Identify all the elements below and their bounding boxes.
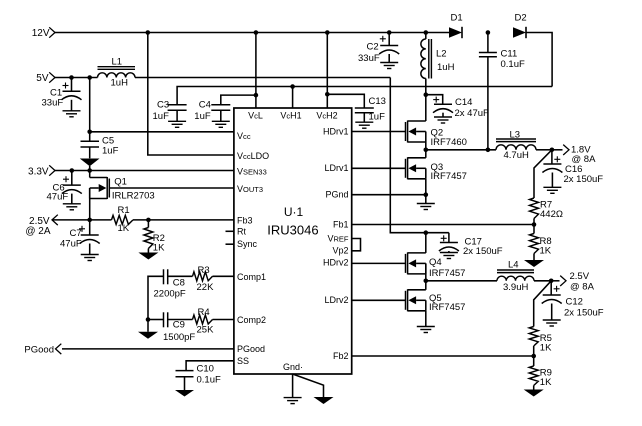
pin label HDrv1 <box>323 126 349 136</box>
svg-text:1uF: 1uF <box>102 146 119 157</box>
svg-text:PGood: PGood <box>24 345 54 356</box>
wire 2.5V rail to R1 <box>52 219 112 221</box>
wire 12V rail <box>55 32 449 34</box>
junction switch1/C11 <box>486 148 491 153</box>
wire Gnd right branch <box>293 374 324 397</box>
capacitor C10 <box>176 363 221 390</box>
pin label VcL <box>248 110 263 120</box>
svg-text:Fb3: Fb3 <box>237 215 253 225</box>
pin label PGood <box>237 344 265 354</box>
svg-text:Gnd·: Gnd· <box>283 362 303 372</box>
svg-text:47uF: 47uF <box>60 238 82 249</box>
svg-text:C2: C2 <box>367 42 379 53</box>
wire PGood <box>24 344 233 356</box>
inductor L2 <box>421 33 455 87</box>
svg-text:VccLDO: VccLDO <box>237 151 269 161</box>
svg-text:1uF: 1uF <box>369 112 386 123</box>
wire SS to C10 <box>186 361 234 371</box>
resistor R3 22K <box>193 265 215 293</box>
svg-text:2x 150uF: 2x 150uF <box>463 246 503 257</box>
svg-text:L3: L3 <box>510 129 521 140</box>
svg-text:Sync: Sync <box>237 239 258 249</box>
svg-text:Rt: Rt <box>237 226 246 236</box>
wire 5V feed to C17 <box>390 78 449 233</box>
svg-text:U·1: U·1 <box>284 205 304 219</box>
ground C12 <box>543 320 561 326</box>
svg-text:LDrv1: LDrv1 <box>324 163 348 173</box>
junction 1.8V output node <box>550 148 555 153</box>
IC label IRU3046 <box>267 223 318 238</box>
svg-text:442Ω: 442Ω <box>540 209 563 220</box>
svg-text:PGood: PGood <box>237 344 265 354</box>
svg-text:HDrv2: HDrv2 <box>323 258 349 268</box>
svg-text:1uH: 1uH <box>111 78 129 89</box>
wire Q2 source to switch node <box>425 142 427 150</box>
svg-text:C14: C14 <box>455 97 472 108</box>
wire L4 to 2.5V node <box>534 280 551 282</box>
svg-text:1uF: 1uF <box>194 111 211 122</box>
svg-text:Vp2: Vp2 <box>332 246 348 256</box>
svg-text:2200pF: 2200pF <box>154 288 186 299</box>
junction R1/R2 <box>146 218 151 223</box>
capacitor C3 <box>153 100 187 123</box>
inductor L3 <box>496 129 536 161</box>
svg-text:C13: C13 <box>369 96 386 107</box>
junction 3.3V/C6 <box>70 168 75 173</box>
resistor R9 <box>529 356 552 390</box>
svg-text:5V: 5V <box>36 73 49 84</box>
ground R2 arrow <box>138 253 158 260</box>
wire LDrv1 to Q3 gate <box>352 167 406 169</box>
pin label Vp2 <box>332 246 348 256</box>
node 3.3V input label <box>28 165 55 177</box>
ground Gnd classic <box>284 398 302 404</box>
svg-text:D2: D2 <box>515 13 527 24</box>
wire 3.3V rail <box>55 170 234 172</box>
junction 5V/C5 <box>87 75 92 80</box>
wire HDrv1 to Q2 gate <box>352 131 406 133</box>
ground C14 <box>434 117 452 123</box>
svg-text:C11: C11 <box>501 49 518 60</box>
wire D2 cathode loop <box>526 33 552 87</box>
pin label VOUT3 <box>237 184 263 194</box>
capacitor C2 <box>358 33 399 65</box>
junction switch1/Q2Q3 <box>424 148 429 153</box>
pin label Fb3 <box>237 215 253 225</box>
svg-text:SS: SS <box>237 356 249 366</box>
svg-text:VcH2: VcH2 <box>316 110 337 120</box>
capacitor C6 <box>47 171 82 204</box>
node 2.5V@2A output label <box>25 215 57 237</box>
svg-text:IRU3046: IRU3046 <box>267 223 318 238</box>
svg-text:R4: R4 <box>198 307 210 318</box>
svg-text:HDrv1: HDrv1 <box>323 126 349 136</box>
svg-text:12V: 12V <box>32 28 50 39</box>
junction 3.3V/C5/Q1 <box>87 168 92 173</box>
transistor Q3 IRF7457 <box>406 150 467 182</box>
svg-text:IRF7460: IRF7460 <box>431 137 467 148</box>
pin label Gnd <box>283 362 303 372</box>
wire C9 to comp bus <box>148 319 164 321</box>
pin label LDrv1 <box>324 163 348 173</box>
wire R3 to C8 <box>168 275 193 277</box>
wire Comp2 <box>213 319 234 321</box>
wire R4 to C9 <box>168 319 193 321</box>
svg-text:33uF: 33uF <box>42 98 64 109</box>
ground C4 <box>212 121 230 127</box>
junction switch2/Q4Q5 <box>424 279 429 284</box>
svg-text:Q1: Q1 <box>114 176 127 187</box>
wire Vcc <box>90 131 234 133</box>
pin label Vcc <box>237 131 251 141</box>
ground C7 <box>81 255 99 261</box>
svg-text:25K: 25K <box>197 324 215 335</box>
node 12V input label <box>32 27 55 39</box>
capacitor C17 <box>439 233 503 257</box>
transistor Q1 IRLR2703 <box>90 171 155 220</box>
capacitor C13 <box>327 94 386 122</box>
wire switch node 1 <box>426 149 496 151</box>
pin label Fb2 <box>333 351 349 361</box>
svg-text:0.1uF: 0.1uF <box>501 59 525 70</box>
svg-text:2x 47uF: 2x 47uF <box>455 108 490 119</box>
wire VcH1 <box>292 87 294 109</box>
junction 12V/Vcc <box>146 30 151 35</box>
junction comp bus <box>146 317 151 322</box>
ground C1 <box>63 111 81 117</box>
junction Q2 drain/C14 <box>424 92 429 97</box>
wire Q5 source to ground <box>425 311 427 327</box>
resistor R4 25K <box>193 307 215 335</box>
svg-text:Fb2: Fb2 <box>333 351 349 361</box>
capacitor C16 <box>542 150 603 188</box>
capacitor C14 <box>426 95 489 119</box>
resistor R1 <box>112 205 134 234</box>
wire R1 to Fb3 <box>133 219 234 221</box>
wire 2.5V node to R5 <box>534 281 552 327</box>
pin label VcH1 <box>280 110 301 120</box>
pin stub Sync <box>226 239 258 249</box>
capacitor C5 <box>80 78 119 171</box>
pin stub Rt <box>226 226 247 236</box>
wire HDrv2 to Q4 gate <box>352 262 406 264</box>
junction 12V/C2 <box>387 30 392 35</box>
svg-text:C8: C8 <box>173 277 185 288</box>
svg-text:L4: L4 <box>508 260 519 271</box>
pin label VccLDO <box>237 151 269 161</box>
svg-text:22K: 22K <box>197 282 215 293</box>
junction 2.5V/Q1/C7 <box>87 218 92 223</box>
diode D1 <box>449 13 463 39</box>
svg-text:2x 150uF: 2x 150uF <box>564 308 604 319</box>
capacitor C8 2200pF <box>154 269 186 299</box>
svg-text:Fb1: Fb1 <box>333 219 349 229</box>
pin label VSEN33 <box>237 166 267 176</box>
svg-text:@ 2A: @ 2A <box>25 226 50 237</box>
svg-text:Comp2: Comp2 <box>237 315 266 325</box>
svg-text:1uF: 1uF <box>153 111 170 122</box>
pin label Fb1 <box>333 219 349 229</box>
ground R9 arrow <box>524 390 544 397</box>
junction 12V/L2 <box>424 30 429 35</box>
inductor L1 <box>98 57 136 89</box>
wire VREF-Vp2 jumper <box>352 239 361 251</box>
svg-text:VcL: VcL <box>248 110 263 120</box>
junction Q4 drain feed <box>424 230 429 235</box>
resistor R5 <box>529 327 552 357</box>
node 5V input label <box>36 72 55 84</box>
svg-text:VSEN33: VSEN33 <box>237 166 267 176</box>
junction 2.5V output node <box>549 279 554 284</box>
ground PGnd <box>417 195 435 210</box>
resistor R8 <box>530 225 552 261</box>
capacitor C9 1500pF <box>163 312 195 343</box>
svg-text:Vcc: Vcc <box>237 131 251 141</box>
svg-text:4.7uH: 4.7uH <box>504 150 529 161</box>
svg-text:IRF7457: IRF7457 <box>431 171 467 182</box>
ground C3 <box>168 121 186 127</box>
wire VOUT3 to Q1 gate <box>109 187 234 189</box>
ground C6 <box>63 204 81 210</box>
ground comp arrow <box>138 332 158 339</box>
transistor Q5 IRF7457 <box>406 281 466 313</box>
wire 1.8V node to R7 <box>534 150 552 198</box>
junction R7/R8/Fb1 <box>532 222 537 227</box>
wire comp bus to ground <box>147 320 149 332</box>
svg-text:Q4: Q4 <box>429 257 442 268</box>
svg-text:1K: 1K <box>540 343 552 354</box>
wire 5V rail after L1 <box>135 77 390 79</box>
inductor L4 <box>497 260 534 294</box>
junction 12V/VcH2 <box>325 30 330 35</box>
svg-text:R3: R3 <box>198 265 210 276</box>
wire Q4 source to switch node 2 <box>425 263 427 280</box>
svg-text:L2: L2 <box>436 49 447 60</box>
svg-text:IRLR2703: IRLR2703 <box>112 190 155 201</box>
svg-text:1K: 1K <box>540 246 552 257</box>
ground C13 <box>355 122 373 128</box>
svg-text:1K: 1K <box>153 243 165 254</box>
svg-text:1K: 1K <box>540 377 552 388</box>
pin label Comp1 <box>237 272 266 282</box>
svg-text:LDrv2: LDrv2 <box>324 295 348 305</box>
IC U1 IRU3046 box <box>234 108 352 374</box>
junction VcH2/C13 <box>325 92 330 97</box>
capacitor C12 <box>542 281 604 320</box>
svg-text:1K: 1K <box>118 223 130 234</box>
ground C10 arrow <box>175 390 194 397</box>
svg-text:VOUT3: VOUT3 <box>237 184 263 194</box>
wire Fb2 <box>352 355 534 357</box>
transistor Q2 IRF7460 <box>406 87 467 148</box>
capacitor C1 <box>42 78 82 111</box>
wire Comp1 <box>213 275 234 277</box>
capacitor C11 <box>479 33 525 150</box>
pin label LDrv2 <box>324 295 348 305</box>
svg-text:C12: C12 <box>566 297 583 308</box>
svg-text:VcH1: VcH1 <box>280 110 301 120</box>
svg-text:C3: C3 <box>157 100 169 111</box>
svg-text:D1: D1 <box>451 13 463 24</box>
resistor R7 <box>530 198 563 225</box>
junction 12V/VcL <box>254 30 259 35</box>
svg-text:@ 8A: @ 8A <box>570 281 595 292</box>
wire L3 to 1.8V node <box>536 149 552 151</box>
pin label VcH2 <box>316 110 337 120</box>
svg-text:C10: C10 <box>197 363 214 374</box>
capacitor C7 <box>60 220 100 255</box>
svg-text:IRF7457: IRF7457 <box>429 302 465 313</box>
svg-text:R1: R1 <box>118 205 130 216</box>
pin label HDrv2 <box>323 258 349 268</box>
resistor R2 <box>144 220 165 254</box>
junction D1/C11 <box>486 30 491 35</box>
pin label SS <box>237 356 249 366</box>
junction R5/R9/Fb2 <box>531 354 536 359</box>
wire switch node 2 <box>426 280 497 282</box>
svg-text:0.1uF: 0.1uF <box>197 374 221 385</box>
svg-text:C4: C4 <box>199 100 211 111</box>
junction PGnd/Q3 <box>424 192 429 197</box>
wire Q3 source to PGnd <box>425 179 427 195</box>
pin label Comp2 <box>237 315 266 325</box>
IC label U1 <box>284 205 304 219</box>
wire LDrv2 to Q5 gate <box>352 299 406 301</box>
svg-text:1500pF: 1500pF <box>163 332 195 343</box>
junction rail/VcH1 <box>290 84 295 89</box>
ground R8 arrow <box>524 260 544 267</box>
svg-text:3.9uH: 3.9uH <box>503 282 528 293</box>
svg-text:L1: L1 <box>112 57 123 68</box>
svg-text:PGnd: PGnd <box>325 190 348 200</box>
svg-text:3.3V: 3.3V <box>28 167 49 178</box>
svg-text:1uH: 1uH <box>437 62 455 73</box>
wire VcH rail <box>177 87 552 105</box>
svg-text:Comp1: Comp1 <box>237 272 266 282</box>
svg-text:33uF: 33uF <box>358 53 380 64</box>
node 2.5V output label <box>551 271 594 292</box>
wire 12V down to VccLDO <box>148 33 234 156</box>
wire 5V to L1 <box>55 77 98 79</box>
diode D2 <box>513 13 527 39</box>
ground C17 <box>440 253 458 259</box>
wire C8 to comp bus <box>148 276 164 319</box>
wire Gnd left branch <box>292 374 294 398</box>
wire PGnd <box>352 194 426 196</box>
ground C16 <box>543 187 561 193</box>
ground Q5 <box>417 327 435 333</box>
ground C2 <box>380 63 398 69</box>
pin label VREF <box>327 233 348 243</box>
wire Fb1 <box>352 224 534 226</box>
svg-text:VREF: VREF <box>327 233 348 243</box>
svg-text:2x 150uF: 2x 150uF <box>564 174 604 185</box>
svg-text:IRF7457: IRF7457 <box>429 268 465 279</box>
wire VcL <box>255 33 257 109</box>
junction 5V/C1 <box>69 75 74 80</box>
ground Gnd arrow <box>314 397 334 404</box>
svg-text:C9: C9 <box>173 320 185 331</box>
transistor Q4 IRF7457 <box>406 233 466 279</box>
node 1.8V output label <box>552 145 596 166</box>
wire VcH2 <box>326 33 328 109</box>
svg-text:47uF: 47uF <box>47 192 69 203</box>
junction C5/Vcc wire <box>87 130 92 135</box>
junction VcL/C4 <box>254 93 259 98</box>
pin label PGnd <box>325 190 348 200</box>
capacitor C4 <box>194 95 256 122</box>
